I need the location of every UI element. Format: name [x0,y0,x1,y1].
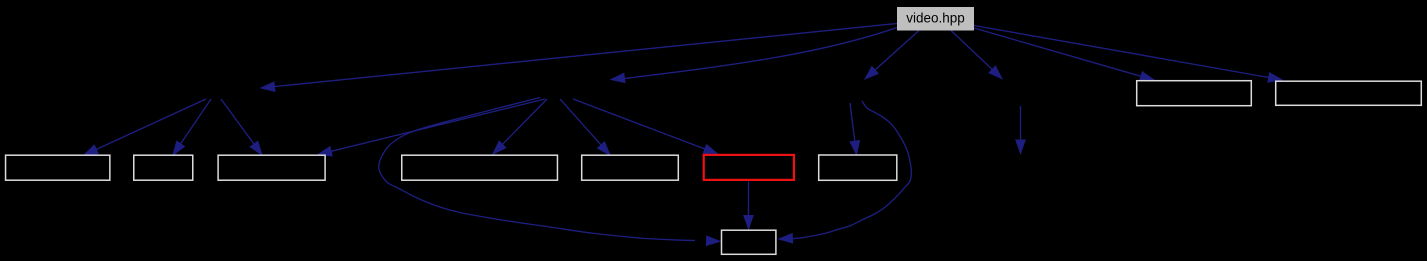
wire hidden node B to red box (arrow) [573,99,718,154]
wire hidden node B to box 3 top right (arrow) [318,99,545,156]
wire hidden node B to bottom box, long left curve (arrow) [379,98,720,246]
box 3 [218,155,325,180]
svg-text:video.hpp: video.hpp [906,10,965,25]
wire video.hpp to right box 1 (arrow) [974,28,1154,81]
wire hidden node C to box 7 (arrow) [850,103,860,155]
wire video.hpp to hidden node D (arrow) [951,31,1002,79]
wire video.hpp to hidden node C (arrow) [865,31,919,80]
wire hidden node B to box 4 (arrow) [493,99,547,154]
wire hidden node A to box 2 (arrow) [173,99,211,155]
wire video.hpp to hidden node A (arrow) [261,24,897,92]
wire hidden node B to box 5 (arrow) [560,99,610,155]
red box [704,155,794,180]
bottom box [722,230,776,254]
box 7 [819,155,897,180]
wire video.hpp to right box 2 (arrow) [974,26,1282,83]
wire hidden node A to box 1 (arrow) [84,99,206,155]
wire hidden node D down (arrow) [1016,106,1025,154]
box 5 [582,155,679,180]
box 2 [134,155,193,180]
box 4 [402,155,558,180]
right box 1 [1137,81,1252,106]
wire hidden node A to box 3 (arrow) [221,99,262,155]
wire red box to bottom box (arrow) [744,182,753,230]
node video.hpp [897,7,974,31]
wire video.hpp to hidden node B (curved, arrow) [611,28,897,83]
right box 2 [1276,81,1422,105]
wire hidden node C to bottom box, right curve (arrow) [779,101,911,243]
box 1 [6,155,110,180]
